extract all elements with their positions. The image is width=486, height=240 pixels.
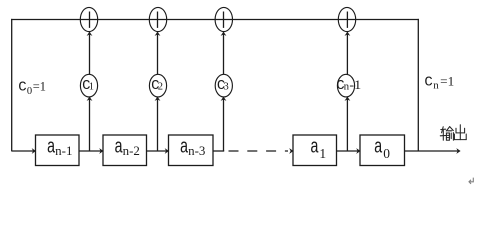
wire: segment a_n-2 to a_n-3 xyxy=(147,150,168,152)
register stage a_1 box xyxy=(293,135,337,166)
register stage a_n-3 box xyxy=(169,135,214,166)
arrowhead into a_n-1 xyxy=(32,148,36,154)
coefficient C1 circle xyxy=(80,74,97,97)
arrowhead tap1 into adder1 xyxy=(87,32,93,36)
coefficient Cn-1 circle xyxy=(337,74,354,97)
wire: feedback tap column 4 xyxy=(346,32,348,151)
wire: segment a_n-1 to a_n-2 xyxy=(79,150,102,152)
label a_n-3 xyxy=(180,137,206,160)
wire: output segment xyxy=(405,150,460,152)
arrowhead tap4 into adder4 xyxy=(345,32,351,36)
svg-text:1: 1 xyxy=(89,82,94,93)
wire: top feedback horizontal xyxy=(11,19,419,21)
wire: stub after a_n-3 xyxy=(213,150,224,152)
arrowhead tap1 into C1 xyxy=(87,97,93,101)
arrowhead into a_1 xyxy=(289,148,293,154)
register stage a_0 box xyxy=(360,135,405,166)
label 输出 (output), hand-drawn strokes xyxy=(440,125,466,140)
svg-text:a: a xyxy=(374,137,383,160)
svg-text:n-1: n-1 xyxy=(55,144,72,158)
svg-text:0: 0 xyxy=(383,146,390,161)
arrowhead tap4 into Cn-1 xyxy=(345,97,351,101)
arrowhead into a_n-3 xyxy=(165,148,169,154)
arrowhead into a_n-2 xyxy=(99,148,103,154)
输 left radical 车 xyxy=(441,128,446,130)
svg-text:3: 3 xyxy=(224,82,229,93)
label C2 inside circle xyxy=(151,78,163,94)
svg-text:C: C xyxy=(424,74,432,90)
arrowhead tap2 into C2 xyxy=(155,97,161,101)
label a_1 xyxy=(310,137,326,161)
adder (XOR) circle 1 xyxy=(80,7,97,31)
svg-text:-1: -1 xyxy=(349,77,361,92)
wire: left feedback vertical xyxy=(11,19,13,152)
label a_n-2 xyxy=(114,137,140,160)
wire: feedback tap column 1 xyxy=(89,32,91,151)
register stage a_n-1 box xyxy=(36,135,80,166)
出 xyxy=(459,125,461,140)
svg-text:1: 1 xyxy=(319,146,326,161)
wire: feedback tap column 2 xyxy=(157,32,159,151)
label C1 inside circle xyxy=(82,78,94,94)
label C0 = 1 xyxy=(18,79,46,97)
wire: input segment into register a_n-1 xyxy=(12,150,35,152)
label Cn = 1 xyxy=(424,73,454,91)
adder (XOR) circle 3 xyxy=(215,7,232,31)
wire: dashed continuation toward a_1 xyxy=(229,150,289,152)
输 right part 俞 xyxy=(446,127,453,131)
register stage a_n-2 box xyxy=(103,135,147,166)
coefficient C3 circle xyxy=(215,74,232,97)
coefficient C2 circle xyxy=(149,74,166,97)
svg-text:n-2: n-2 xyxy=(123,144,140,158)
svg-text:n-3: n-3 xyxy=(188,144,205,158)
svg-text:2: 2 xyxy=(158,82,163,93)
svg-text:=1: =1 xyxy=(33,79,46,94)
arrowhead tap2 into adder2 xyxy=(155,32,161,36)
arrowhead into a_0 xyxy=(356,148,360,154)
svg-text:a: a xyxy=(310,137,319,160)
label Cn-1 spilling out of circle xyxy=(336,77,361,94)
stray paragraph return mark xyxy=(469,178,473,184)
wire: right vertical drop to output line xyxy=(417,19,419,152)
svg-text:=1: =1 xyxy=(440,73,454,88)
label a_n-1 xyxy=(47,137,73,160)
svg-text:C: C xyxy=(18,80,26,96)
wire: segment a_1 to a_0 xyxy=(337,150,359,152)
label C3 inside circle xyxy=(217,78,229,94)
svg-text:n: n xyxy=(433,80,439,92)
label a_0 xyxy=(374,137,390,161)
adder (XOR) circle 2 xyxy=(149,7,166,31)
arrowhead output xyxy=(456,148,460,154)
svg-text:0: 0 xyxy=(27,86,32,97)
arrowhead tap3 into adder3 xyxy=(221,32,227,36)
wire: feedback tap column 3 xyxy=(223,32,225,151)
adder (XOR) circle 4 xyxy=(338,7,355,31)
arrowhead tap3 into C3 xyxy=(221,97,227,101)
